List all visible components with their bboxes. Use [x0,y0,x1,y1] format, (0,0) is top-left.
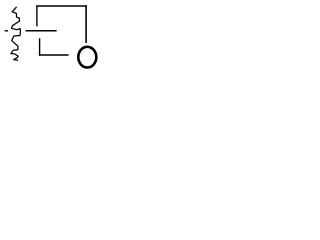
wire: right vertical [85,5,87,43]
wire: capacitor top lead vertical [36,6,38,26]
wire: bottom lead vertical [39,38,41,55]
source element squiggle (hand-drawn coil) [11,7,21,60]
wire: middle horizontal line [26,30,57,32]
wire: top horizontal [36,5,87,7]
wire: bottom horizontal [39,54,69,56]
lamp L1 (circle) [78,47,96,68]
left stub dash [5,30,8,32]
